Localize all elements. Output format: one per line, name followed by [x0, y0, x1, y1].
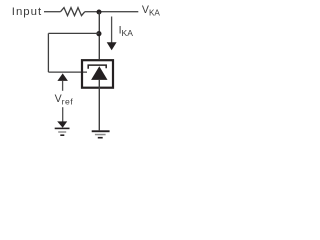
- wire REF input horizontal: [48, 71, 87, 73]
- wire anode vertical to ground: [98, 80, 100, 130]
- Vref dimension arrow down: [62, 107, 64, 122]
- ground (anode): [92, 130, 110, 132]
- junction cathode node: [97, 10, 102, 15]
- svg-text:Input: Input: [12, 6, 42, 18]
- shunt regulator U1 (TL431) box: [82, 60, 113, 87]
- Vref dimension arrow up: [57, 73, 68, 81]
- svg-text:VKA: VKA: [142, 4, 161, 17]
- wire cathode vertical: [98, 12, 100, 59]
- anode triangle of TL431: [91, 66, 107, 80]
- resistor (input series resistor): [61, 8, 85, 16]
- svg-text:IKA: IKA: [119, 25, 134, 39]
- svg-text:Vref: Vref: [55, 93, 74, 106]
- wire feedback top: [48, 32, 99, 34]
- current arrow IKA: [111, 17, 113, 43]
- wire resistor to VKA: [85, 11, 139, 13]
- wire feedback left vertical: [47, 33, 49, 72]
- cathode bar of TL431: [88, 65, 106, 69]
- ground (Vref): [55, 128, 70, 130]
- junction feedback node: [96, 31, 101, 36]
- wire input to resistor: [44, 11, 61, 13]
